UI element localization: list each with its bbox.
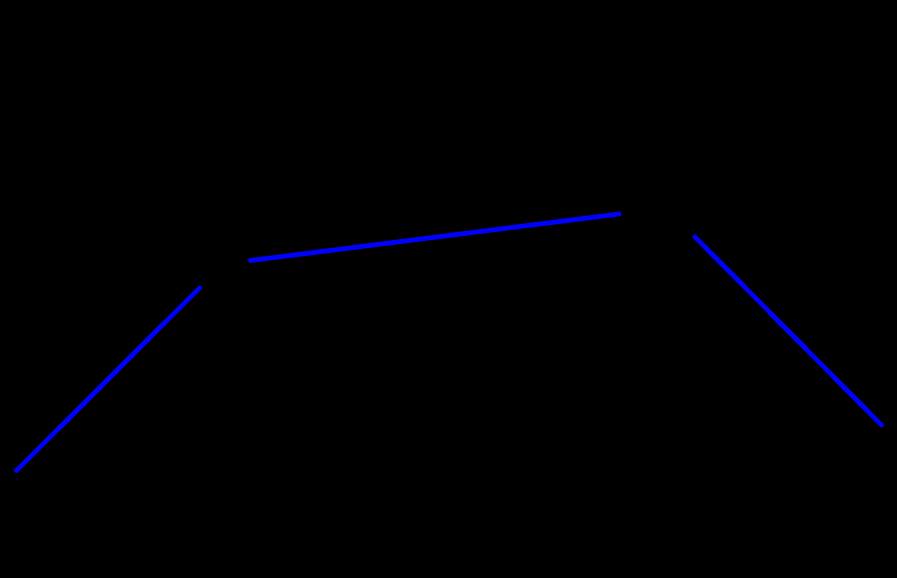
wire segment 1 (rising blue line, lower left) bbox=[17, 288, 200, 471]
wire segment 2 (long shallow blue line, middle) bbox=[251, 214, 620, 261]
wire segment 3 (falling blue line, right) bbox=[695, 237, 882, 425]
